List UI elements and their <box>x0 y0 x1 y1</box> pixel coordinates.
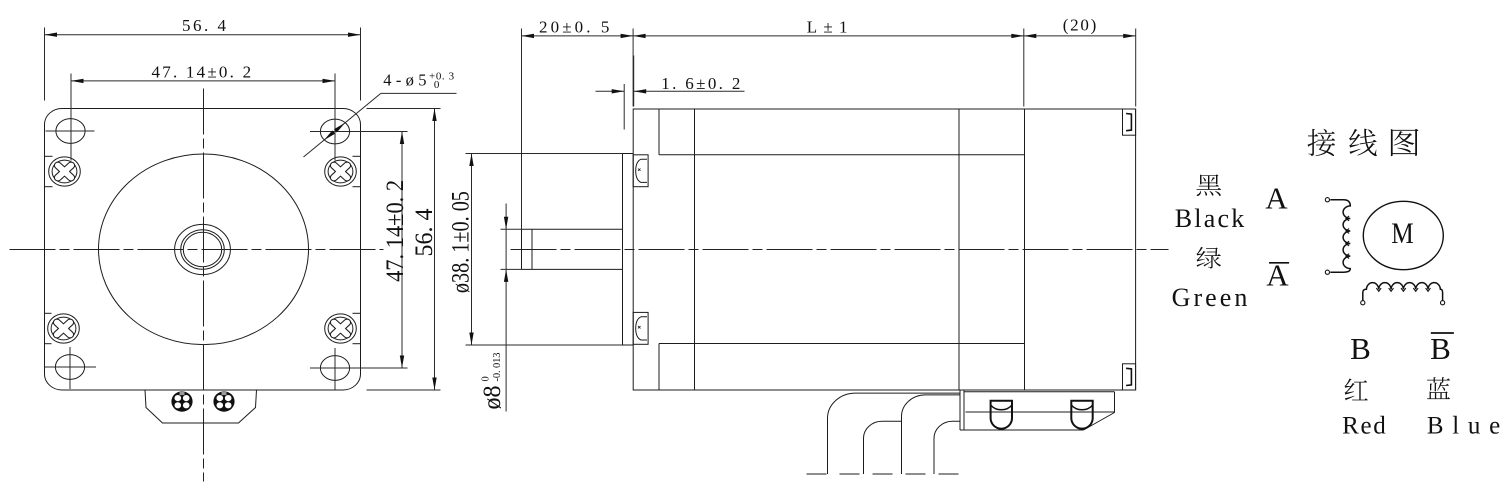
dimension L±1 <box>633 17 1024 106</box>
front view: top-left mounting hole <box>56 119 85 144</box>
svg-text:ø38. 1±0. 05: ø38. 1±0. 05 <box>448 191 475 293</box>
dimension 47.14±0.2 top <box>71 63 335 161</box>
dimension 1.6±0.2 <box>596 56 745 130</box>
svg-text:-0. 013: -0. 013 <box>492 353 503 382</box>
svg-text:+0. 3: +0. 3 <box>429 71 455 83</box>
front view: lower-left screw <box>45 313 80 343</box>
side view: wire break dashed line <box>807 473 963 475</box>
svg-text:0: 0 <box>481 376 492 381</box>
wiring diagram: coil A (vertical winding) <box>1330 200 1350 273</box>
front view: pilot boss circle <box>99 154 309 345</box>
wiring diagram: label lv (green) <box>1196 247 1221 269</box>
dimension ø8 (vertical with tolerance) <box>479 204 522 412</box>
svg-text:Green: Green <box>1172 283 1248 312</box>
wiring diagram: motor circle M <box>1363 201 1443 269</box>
side view: rear end-bell lines <box>959 109 1025 390</box>
svg-text:0: 0 <box>434 79 440 91</box>
svg-text:M: M <box>1391 217 1414 250</box>
side view: lead wires <box>828 393 961 474</box>
front view: horizontal centerline <box>10 249 384 251</box>
front view: upper-right screw <box>325 156 361 186</box>
side view: top rear clip <box>1123 109 1136 135</box>
side view: top flange slot <box>633 155 648 187</box>
dimension 56.4 top <box>45 16 361 101</box>
front view: shaft circles <box>175 224 231 274</box>
front view: bottom-right mounting hole <box>320 356 349 381</box>
front view: bottom connector housing <box>145 390 257 423</box>
side view: bottom rear clip <box>1123 364 1136 390</box>
side view: shaft <box>522 229 623 269</box>
dimension 20±0.5 <box>522 17 634 229</box>
side view: bottom flange slot <box>633 312 648 344</box>
front view: motor body outline <box>45 109 361 391</box>
wiring diagram: label tu (diagram) <box>1391 129 1419 156</box>
dimension (20) <box>1024 16 1136 107</box>
svg-text:1. 6±0. 2: 1. 6±0. 2 <box>661 74 740 93</box>
front view: vertical centerline <box>203 89 205 482</box>
wiring diagram: label xian (wire) <box>1349 129 1377 156</box>
dimension 56.4 right (vertical) <box>367 109 441 391</box>
front view: top-right mounting hole <box>320 119 349 144</box>
svg-text:L±1: L±1 <box>807 17 848 36</box>
side view: terminal block <box>960 390 1115 430</box>
front view: bottom connector right screw <box>213 391 234 411</box>
dimension ø38.1±0.05 (vertical) <box>448 154 623 346</box>
wiring diagram: label lan (blue) <box>1427 377 1450 399</box>
side view: right terminal <box>1071 401 1092 429</box>
svg-text:47. 14±0. 2: 47. 14±0. 2 <box>382 180 409 282</box>
svg-text:56. 4: 56. 4 <box>411 208 438 256</box>
svg-text:B: B <box>1350 331 1371 366</box>
svg-text:ø8: ø8 <box>479 386 506 410</box>
wiring diagram: coil A terminal dots <box>1325 198 1329 202</box>
front view: upper-left screw <box>45 156 81 186</box>
wiring diagram: label hei (black) <box>1196 174 1221 196</box>
dimension 4-ø5 callout with leader <box>304 71 457 158</box>
wiring diagram: coil B (horizontal winding) <box>1363 283 1443 301</box>
svg-text:56. 4: 56. 4 <box>182 16 227 35</box>
svg-text:A: A <box>1265 181 1288 216</box>
svg-text:4-ø5: 4-ø5 <box>383 71 426 90</box>
wiring diagram: coil B terminal dots <box>1361 301 1365 305</box>
side view: pilot boss <box>623 154 634 346</box>
wiring diagram: label jie (connect) <box>1308 129 1336 156</box>
side view: motor body outline <box>633 109 1135 390</box>
svg-text:47. 14±0. 2: 47. 14±0. 2 <box>152 63 252 82</box>
svg-text:Red: Red <box>1342 413 1386 440</box>
side view: horizontal centerline <box>511 249 1169 251</box>
dimension 47.14±0.2 right (vertical) <box>349 132 410 369</box>
front view: bottom-left mounting hole <box>55 355 84 380</box>
side view: front end-bell lines <box>659 109 1025 390</box>
front view: bottom connector left screw <box>171 391 192 411</box>
wiring diagram: label hong (red) <box>1345 378 1368 400</box>
side view: left terminal <box>991 401 1012 429</box>
svg-text:Black: Black <box>1175 204 1245 233</box>
svg-text:B: B <box>1430 331 1451 366</box>
front view: lower-right screw <box>325 313 361 343</box>
svg-text:(20): (20) <box>1063 16 1097 35</box>
